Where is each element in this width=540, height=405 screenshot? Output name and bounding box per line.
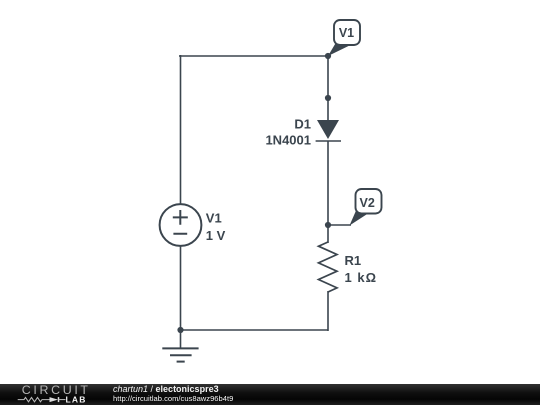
logo diode symbol <box>50 397 66 402</box>
svg-text:LAB: LAB <box>66 394 87 404</box>
svg-text:V1: V1 <box>339 26 354 40</box>
footer bar <box>0 384 540 405</box>
net flag V2 <box>328 189 382 226</box>
node junction diode anode <box>325 95 331 101</box>
logo resistor symbol <box>18 397 50 401</box>
wire right from node V1 to diode anode <box>327 55 329 121</box>
resistor R1 <box>319 242 338 292</box>
svg-text:V1: V1 <box>206 210 222 225</box>
node junction V2 flag <box>325 222 331 228</box>
svg-text:D1: D1 <box>294 116 311 131</box>
diode D1 <box>316 120 341 141</box>
svg-text:1 V: 1 V <box>206 228 226 243</box>
net flag V1 <box>328 20 360 56</box>
ground <box>162 330 198 362</box>
wire top horizontal <box>179 55 328 57</box>
wire bottom horizontal <box>180 329 328 331</box>
wire diode cathode to resistor <box>327 141 329 243</box>
wire left lower <box>180 246 182 330</box>
node junction V1 flag <box>325 53 331 59</box>
credit line author/title <box>113 385 219 394</box>
svg-text:1N4001: 1N4001 <box>265 132 311 147</box>
wire left upper <box>180 55 182 204</box>
voltage source V1 <box>160 204 202 246</box>
wire resistor bottom <box>327 291 329 331</box>
svg-text:V2: V2 <box>360 196 375 210</box>
svg-text:R1: R1 <box>345 253 362 268</box>
credit line url <box>113 395 233 403</box>
svg-text:1 kΩ: 1 kΩ <box>345 270 378 285</box>
node junction ground <box>177 327 183 333</box>
